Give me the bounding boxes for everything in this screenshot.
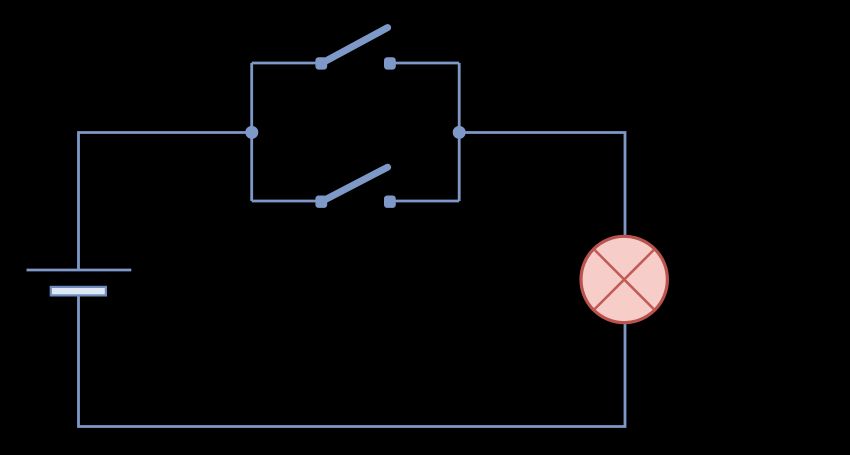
wire: [459, 133, 625, 237]
wire: [79, 133, 252, 271]
wire: [252, 62, 321, 65]
node B: [453, 126, 466, 139]
wire: [79, 296, 626, 427]
wire: [458, 63, 461, 201]
switch S2: [315, 167, 395, 208]
battery B1: [27, 270, 132, 295]
lamp L1: [581, 236, 667, 322]
switch S1: [315, 28, 395, 70]
wire: [252, 200, 321, 203]
wire: [390, 62, 459, 65]
wire: [250, 63, 253, 201]
wire: [390, 200, 459, 203]
node A: [245, 126, 258, 139]
